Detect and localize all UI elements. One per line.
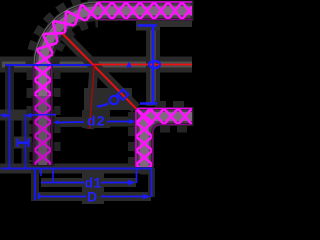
d1 dimension <box>41 182 84 184</box>
halo: H dim <box>14 137 32 149</box>
ext x53 (inner edge) <box>52 169 54 183</box>
halo: red diagonal <box>63 34 136 109</box>
leader: tail, circle, diamond <box>97 104 109 107</box>
light core inside outer band <box>43 11 192 165</box>
blue vertical x153 <box>152 26 154 103</box>
halo: under top band right <box>148 20 192 27</box>
foot bar <box>140 102 157 104</box>
halo: left vertical x9.5 <box>5 64 14 168</box>
halo: bottom left verticals <box>31 168 39 201</box>
red near-vertical ray <box>90 65 95 129</box>
red centerline horizontal (right half) <box>94 64 192 66</box>
halo: 7-bar <box>136 21 160 31</box>
red radius diagonal <box>63 34 136 109</box>
dim arrows at y115.5 <box>1 113 32 118</box>
svg-text:D: D <box>87 189 97 205</box>
ext x151.5 <box>151 169 153 198</box>
bottom-left vertical x35 <box>34 169 36 201</box>
hatch: inner band <box>136 109 192 179</box>
halo: D ext vertical <box>148 168 155 197</box>
outer band edges <box>34 2 192 165</box>
arc run <box>34 2 98 66</box>
halo: d1 line <box>41 178 136 187</box>
top straight run <box>98 2 196 20</box>
ext x136.5 <box>136 169 138 184</box>
halo: D line <box>38 192 151 201</box>
bottom outlet line <box>1 168 152 170</box>
D dimension <box>38 193 40 199</box>
halo: x25 vertical <box>22 113 30 168</box>
small up arrow on centerline <box>126 62 132 68</box>
blocky jpeg noise along band edges <box>30 0 98 66</box>
short ext x41 <box>40 169 42 177</box>
halo: d2 cluster / leader <box>84 88 132 110</box>
H dim at y142.5 <box>17 139 30 148</box>
inner wall band (elbow inner wall): gray fill <box>136 109 192 168</box>
outer wall band (elbow outer wall): gray fill <box>34 2 192 165</box>
halo: red vertical <box>90 66 95 129</box>
center ellipse marker <box>149 61 160 68</box>
dim overlay on lower left band <box>31 96 55 166</box>
inner band edges <box>136 109 192 168</box>
blue vertical extension x9.5 <box>9 65 11 168</box>
halo: bottom outlet line <box>0 164 152 174</box>
halo: dim arrows y115.5 <box>0 110 56 121</box>
light core inside inner band <box>144 117 192 168</box>
blue vertical extension x25.5 <box>25 114 27 168</box>
left straight run <box>34 66 52 178</box>
halo: d1 D text block <box>82 173 104 204</box>
halo: vertical line x153 <box>146 22 160 106</box>
svg-text:d2: d2 <box>87 113 106 129</box>
blue centerline horizontal (left half) <box>5 64 94 66</box>
d2 dimension <box>57 122 129 123</box>
jpeg halo: horizontal centerline band <box>0 0 192 204</box>
hatch: outer band <box>34 2 196 178</box>
blue 7-bar top <box>138 24 158 27</box>
